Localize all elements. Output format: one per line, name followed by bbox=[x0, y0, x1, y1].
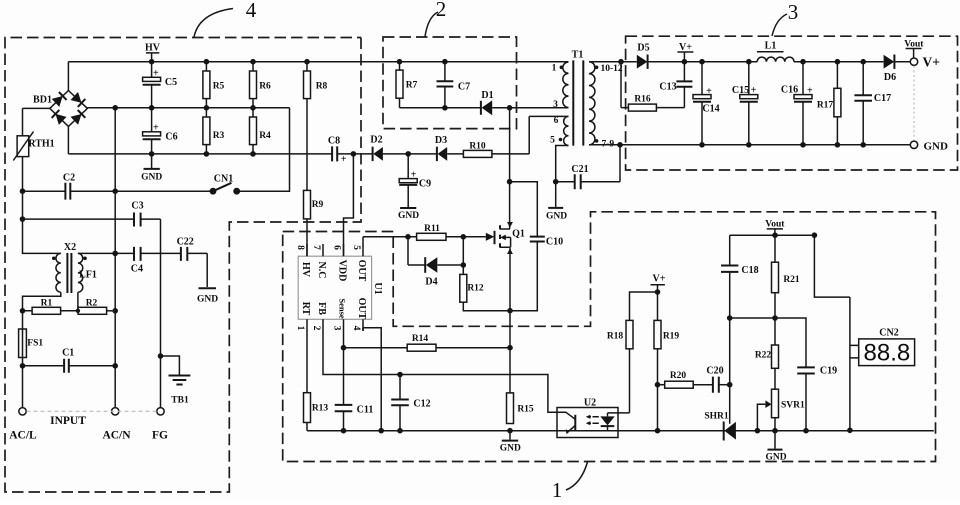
node gnd rail at C6 bbox=[149, 151, 155, 157]
svg-text:GND: GND bbox=[765, 452, 786, 462]
node drain C10 branch bbox=[507, 179, 513, 185]
node rail at C19 bbox=[803, 428, 809, 434]
svg-text:D3: D3 bbox=[435, 135, 447, 146]
svg-text:R11: R11 bbox=[424, 224, 440, 234]
svg-text:HV: HV bbox=[300, 262, 311, 278]
svg-text:R10: R10 bbox=[469, 141, 486, 151]
dotted link V+ to GND terminal bbox=[913, 66, 915, 141]
wire CN1 right to mid-rail drop bbox=[237, 108, 290, 191]
node C20 / SHR1 ref junction bbox=[727, 382, 733, 388]
diode D2 bbox=[370, 134, 408, 161]
wire pin1 RT to R13 bbox=[306, 331, 308, 393]
svg-text:GND: GND bbox=[141, 173, 162, 183]
node HV rail at R8 bbox=[304, 59, 310, 65]
dashed box 2 (clamp/snubber section) bbox=[383, 37, 517, 129]
diode D6 bbox=[884, 55, 911, 84]
label INPUT bbox=[50, 415, 86, 427]
dashed box 3 (output filter section) bbox=[626, 36, 958, 170]
wire drain column bbox=[509, 108, 511, 229]
node pin5 / C21 / gnd junction bbox=[553, 179, 559, 185]
svg-text:R22: R22 bbox=[755, 350, 772, 360]
node C2 left junction bbox=[20, 188, 26, 194]
svg-text:AC/L: AC/L bbox=[9, 430, 37, 442]
node gate line D4 branch bbox=[405, 234, 411, 240]
node output rail at V+ bbox=[682, 59, 688, 65]
svg-text:CN1: CN1 bbox=[214, 174, 233, 185]
node rail at C15 bottom bbox=[746, 142, 752, 148]
svg-text:FG: FG bbox=[152, 430, 168, 442]
label HV flag bbox=[145, 43, 161, 62]
svg-text:+: + bbox=[807, 86, 813, 97]
node gnd rail at R4 bbox=[250, 151, 256, 157]
svg-text:C18: C18 bbox=[741, 265, 758, 276]
wire source column bbox=[509, 247, 511, 393]
svg-text:R15: R15 bbox=[517, 405, 534, 415]
label Vout flag feedback bbox=[765, 220, 785, 236]
ground under C22 bbox=[197, 288, 218, 304]
svg-text:+: + bbox=[341, 154, 347, 165]
svg-text:10-12: 10-12 bbox=[601, 64, 623, 74]
resistor R11 bbox=[417, 224, 486, 241]
svg-text:+: + bbox=[751, 85, 757, 96]
svg-text:+: + bbox=[706, 86, 712, 97]
wire bridge bottom to primary gnd rail bbox=[67, 126, 69, 153]
svg-text:SHR1: SHR1 bbox=[704, 411, 729, 421]
node divider mid junction bbox=[772, 315, 778, 321]
resistor R14 bbox=[344, 334, 511, 351]
svg-text:VDD: VDD bbox=[336, 260, 347, 282]
node source R14 junction bbox=[507, 345, 513, 351]
diode D4 bbox=[408, 237, 463, 288]
op-amp U1 (controller IC) bbox=[295, 244, 383, 331]
capacitor C20 bbox=[706, 366, 729, 393]
svg-text:R9: R9 bbox=[312, 200, 324, 210]
svg-text:C1: C1 bbox=[62, 348, 74, 359]
svg-text:V+: V+ bbox=[923, 55, 940, 70]
svg-text:3: 3 bbox=[788, 0, 799, 24]
svg-text:4: 4 bbox=[246, 0, 257, 22]
node C1 left junction bbox=[20, 363, 26, 369]
switch CN1 bbox=[210, 174, 241, 195]
svg-text:R12: R12 bbox=[467, 284, 484, 294]
dashed box 1 (feedback/control section) bbox=[283, 212, 936, 462]
svg-text:R4: R4 bbox=[259, 131, 271, 141]
svg-text:GND: GND bbox=[398, 211, 419, 221]
capacitor C18 bbox=[721, 235, 759, 318]
svg-text:GND: GND bbox=[500, 444, 521, 454]
terminal V+ output bbox=[910, 55, 940, 70]
node C8/VDD junction bbox=[351, 151, 357, 157]
svg-text:C3: C3 bbox=[131, 201, 143, 212]
svg-text:C11: C11 bbox=[357, 405, 374, 416]
resistor R6 bbox=[250, 62, 272, 108]
svg-text:Vout: Vout bbox=[765, 220, 785, 230]
svg-text:U1: U1 bbox=[372, 282, 383, 294]
capacitor C21 bbox=[556, 145, 620, 189]
wire primary gnd rail bbox=[68, 153, 372, 155]
svg-text:C9: C9 bbox=[419, 179, 431, 190]
diode D3 bbox=[408, 135, 463, 161]
node Vout tick bbox=[772, 232, 778, 238]
ground under SVR1 bbox=[765, 431, 786, 463]
node HV rail at C7 bbox=[442, 59, 448, 65]
svg-text:2: 2 bbox=[436, 0, 447, 21]
capacitor C19 bbox=[797, 366, 837, 431]
capacitor C10 bbox=[510, 182, 564, 311]
svg-text:C17: C17 bbox=[874, 93, 891, 104]
node gnd rail at R19 bbox=[655, 428, 661, 434]
capacitor C22 bbox=[177, 237, 194, 261]
node D4 right junction bbox=[461, 262, 467, 268]
node R19/R20 junction bbox=[655, 382, 661, 388]
wire AC/N column (bridge right down to terminal) bbox=[114, 108, 116, 408]
svg-text:C20: C20 bbox=[706, 366, 723, 377]
svg-text:1: 1 bbox=[295, 326, 305, 331]
node mid rail at C5/C6 bbox=[149, 105, 155, 111]
dashed box 4 (input/rectifier section) bbox=[5, 38, 361, 493]
label V+ flag box3 bbox=[677, 42, 693, 62]
svg-text:T1: T1 bbox=[572, 50, 584, 61]
node clamp rail at C7 bbox=[442, 105, 448, 111]
node gnd rail at R3 bbox=[204, 151, 210, 157]
capacitor C9 (electrolytic) bbox=[399, 154, 431, 207]
wire bridge top to HV rail bbox=[67, 62, 69, 91]
diode D1 bbox=[481, 90, 494, 115]
node rail corner junction bbox=[812, 232, 818, 238]
ground under T1 pin5 bbox=[546, 182, 567, 222]
svg-text:AC/N: AC/N bbox=[102, 430, 131, 442]
svg-text:D1: D1 bbox=[481, 90, 493, 101]
resistor R12 bbox=[460, 237, 510, 311]
capacitor C14 (electrolytic) bbox=[693, 62, 720, 145]
capacitor C6 (electrolytic) bbox=[143, 108, 178, 154]
svg-text:C19: C19 bbox=[820, 366, 837, 377]
wire output top rail bbox=[648, 61, 884, 63]
svg-text:R1: R1 bbox=[41, 299, 53, 309]
svg-text:SVR1: SVR1 bbox=[781, 400, 805, 410]
svg-text:C21: C21 bbox=[571, 164, 588, 175]
node HV rail at R5 bbox=[204, 59, 210, 65]
resistor R20 bbox=[658, 371, 713, 388]
svg-text:R8: R8 bbox=[316, 81, 328, 91]
svg-text:R19: R19 bbox=[663, 332, 680, 342]
diode D5 bbox=[637, 43, 685, 69]
svg-text:R2: R2 bbox=[86, 299, 98, 309]
svg-text:5: 5 bbox=[550, 135, 555, 145]
node HV rail at R6 bbox=[250, 59, 256, 65]
svg-text:D6: D6 bbox=[884, 72, 896, 83]
section label 4 bbox=[194, 0, 257, 37]
wire R18 to opto LED anode bbox=[608, 412, 630, 414]
svg-text:U2: U2 bbox=[584, 397, 596, 408]
node mid rail at R6/R4 bbox=[250, 105, 256, 111]
section label 1 bbox=[552, 462, 588, 502]
svg-text:C22: C22 bbox=[177, 237, 194, 248]
svg-text:R18: R18 bbox=[607, 332, 624, 342]
svg-text:D5: D5 bbox=[637, 43, 649, 54]
node R2 right junction bbox=[112, 308, 118, 314]
earth TB1 bbox=[161, 356, 191, 406]
node HV rail at R7 bbox=[397, 59, 403, 65]
capacitor C2 bbox=[23, 172, 214, 199]
wire LF1 right top / C4 rail bbox=[78, 252, 207, 254]
wire T1 pin3 lead bbox=[510, 107, 569, 109]
capacitor C16 (electrolytic) bbox=[781, 62, 813, 145]
svg-text:R13: R13 bbox=[312, 404, 329, 414]
svg-text:V+: V+ bbox=[653, 274, 666, 285]
node R1 left junction bbox=[20, 308, 26, 314]
wire Vout top rail feedback bbox=[730, 235, 850, 297]
node R2 mid junction bbox=[76, 309, 80, 313]
wire divider mid rail bbox=[730, 318, 806, 367]
shunt regulator SHR1 bbox=[704, 411, 736, 440]
resistor R7 bbox=[396, 62, 418, 108]
ground under C9 bbox=[398, 208, 419, 221]
node V+ junction bbox=[655, 289, 661, 295]
svg-text:R17: R17 bbox=[817, 100, 834, 110]
svg-text:C16: C16 bbox=[781, 84, 798, 95]
svg-text:N.C: N.C bbox=[316, 262, 327, 279]
node rail at C17 top bbox=[860, 59, 866, 65]
section label 2 bbox=[425, 0, 446, 37]
resistor R18 bbox=[607, 320, 633, 413]
thermistor RTH1 bbox=[13, 108, 54, 191]
svg-text:LF1: LF1 bbox=[79, 270, 97, 281]
svg-text:+: + bbox=[153, 123, 159, 134]
resistor R1 bbox=[23, 299, 79, 315]
node rail at SVR1 bottom bbox=[772, 428, 778, 434]
svg-text:OUT: OUT bbox=[356, 260, 367, 282]
common-mode choke X2 / LF1 bbox=[52, 242, 97, 293]
node Sense/R14 tap bbox=[341, 345, 347, 351]
svg-text:C10: C10 bbox=[546, 237, 563, 248]
svg-text:RT: RT bbox=[300, 302, 311, 316]
potentiometer SVR1 bbox=[757, 389, 805, 431]
wire pin4 OUT to gnd rail bbox=[363, 328, 381, 431]
svg-text:R21: R21 bbox=[783, 275, 800, 285]
wire T1 secondary bottom lead / output gnd rail bbox=[589, 144, 910, 146]
node rail at C16 bottom bbox=[800, 142, 806, 148]
section label 3 bbox=[772, 0, 798, 36]
svg-text:+: + bbox=[153, 68, 159, 79]
resistor R19 bbox=[654, 292, 679, 431]
capacitor C12 bbox=[391, 375, 430, 431]
node C12 top on FB line bbox=[397, 372, 403, 378]
svg-text:R6: R6 bbox=[259, 81, 271, 91]
capacitor C11 bbox=[335, 405, 374, 416]
node rail at C14 bottom bbox=[699, 142, 705, 148]
resistor R13 bbox=[304, 393, 329, 431]
resistor R4 bbox=[250, 108, 272, 154]
svg-text:C12: C12 bbox=[413, 399, 430, 410]
capacitor C4 bbox=[131, 247, 143, 275]
transistor Q1 (MOSFET) bbox=[486, 222, 525, 254]
resistor R17 bbox=[817, 62, 841, 145]
svg-text:C8: C8 bbox=[328, 135, 340, 146]
svg-text:FB: FB bbox=[316, 302, 327, 315]
label Vout flag box3 bbox=[904, 39, 924, 58]
node gnd rail at CN2 bbox=[847, 428, 853, 434]
svg-text:+: + bbox=[411, 170, 417, 181]
resistor R9 bbox=[304, 190, 324, 256]
wire V+ to R18 bbox=[630, 292, 658, 320]
node C1 right junction bbox=[112, 363, 118, 369]
node secondary bottom bbox=[617, 142, 623, 148]
terminal AC/N bbox=[102, 408, 131, 442]
svg-text:GND: GND bbox=[197, 295, 218, 305]
wire SHR1 reference column bbox=[729, 318, 731, 424]
svg-text:88.8: 88.8 bbox=[864, 340, 911, 367]
node C3 left junction bbox=[20, 216, 26, 222]
svg-text:C7: C7 bbox=[458, 82, 470, 93]
wire control gnd rail bbox=[307, 430, 934, 432]
node HV rail at C5 bbox=[149, 59, 155, 65]
inductor L1 bbox=[757, 41, 794, 62]
svg-text:1: 1 bbox=[552, 63, 557, 73]
capacitor C1 bbox=[23, 348, 116, 373]
node rail at C17 bottom bbox=[860, 142, 866, 148]
node mid rail at R5/R3 bbox=[204, 105, 210, 111]
svg-text:R16: R16 bbox=[634, 94, 651, 104]
resistor R10 bbox=[463, 116, 568, 157]
transformer T1 bbox=[550, 50, 623, 150]
svg-text:OUT: OUT bbox=[356, 298, 367, 320]
bridge rectifier BD1 bbox=[33, 91, 87, 127]
svg-text:GND: GND bbox=[546, 212, 567, 222]
resistor R22 bbox=[755, 345, 779, 389]
wire C22 to ground drop bbox=[206, 253, 208, 287]
node gnd rail at pin4 drop bbox=[378, 428, 384, 434]
wire bridge left to RTH1 column bbox=[23, 107, 50, 109]
wire pin5 OUT gate line bbox=[363, 237, 417, 244]
node rail at R17 bottom bbox=[835, 142, 841, 148]
svg-text:1: 1 bbox=[552, 478, 563, 500]
svg-text:7: 7 bbox=[311, 245, 321, 250]
node TB1 tap bbox=[158, 353, 164, 359]
resistor R21 bbox=[772, 235, 800, 345]
ground under C6 bbox=[141, 154, 162, 183]
node R11/R12 column top bbox=[461, 234, 467, 240]
capacitor C17 bbox=[854, 62, 891, 145]
optocoupler U2 bbox=[557, 397, 618, 437]
node D2/D3/C9 junction bbox=[405, 151, 411, 157]
wire HV main rail bbox=[68, 61, 568, 63]
svg-text:4: 4 bbox=[351, 326, 361, 331]
wire clamp bottom rail bbox=[400, 107, 510, 109]
node D1 / T1 pin3 / drain junction bbox=[507, 105, 513, 111]
wire LF1 left bottom jog to AC/L column bbox=[23, 292, 61, 329]
svg-text:D2: D2 bbox=[370, 134, 382, 145]
node gnd rail at R15 bbox=[507, 428, 513, 434]
fuse FS1 bbox=[19, 329, 44, 408]
svg-text:8: 8 bbox=[295, 245, 305, 250]
svg-text:5: 5 bbox=[351, 245, 361, 250]
wire FG column bbox=[160, 219, 162, 408]
wire LF1 right bottom to R1R2 mid bbox=[77, 292, 79, 311]
svg-text:C13: C13 bbox=[659, 82, 676, 93]
resistor R5 bbox=[203, 62, 225, 108]
input terminal dashed link bbox=[27, 410, 157, 412]
svg-text:INPUT: INPUT bbox=[50, 415, 86, 427]
svg-text:CN2: CN2 bbox=[879, 327, 898, 338]
svg-text:BD1: BD1 bbox=[33, 95, 52, 106]
svg-text:TB1: TB1 bbox=[171, 396, 189, 406]
svg-text:R14: R14 bbox=[412, 334, 429, 344]
wire T1 secondary top lead bbox=[589, 61, 637, 63]
svg-text:X2: X2 bbox=[64, 242, 76, 253]
svg-text:Q1: Q1 bbox=[512, 229, 525, 240]
wire pin3 Sense down bbox=[343, 331, 345, 431]
node rail at C15 top bbox=[746, 59, 752, 65]
node rail at C14 top bbox=[699, 59, 705, 65]
node rail at C16 top bbox=[800, 59, 806, 65]
terminal AC/L bbox=[9, 408, 37, 442]
svg-text:R3: R3 bbox=[213, 131, 225, 141]
svg-text:R5: R5 bbox=[213, 81, 225, 91]
svg-text:D4: D4 bbox=[425, 277, 437, 288]
wire VDD feed jog to U1 pin6 bbox=[344, 154, 354, 256]
ground under R15 bbox=[500, 431, 521, 454]
svg-text:6: 6 bbox=[331, 245, 341, 250]
svg-text:R7: R7 bbox=[406, 81, 418, 91]
svg-text:L1: L1 bbox=[765, 41, 777, 52]
svg-text:GND: GND bbox=[924, 140, 949, 152]
svg-text:C14: C14 bbox=[702, 104, 719, 115]
capacitor C13 bbox=[659, 62, 692, 93]
svg-text:3: 3 bbox=[331, 326, 341, 331]
wire pin2 FB to optocoupler bbox=[323, 331, 557, 412]
node secondary top at D5 anode bbox=[618, 59, 624, 65]
svg-text:RTH1: RTH1 bbox=[28, 139, 54, 150]
capacitor C15 (electrolytic) bbox=[732, 62, 758, 145]
capacitor C8 bbox=[328, 135, 347, 165]
node C18 bottom / divider wire bbox=[727, 315, 733, 321]
svg-text:FS1: FS1 bbox=[27, 338, 43, 348]
capacitor C3 bbox=[23, 201, 161, 227]
svg-text:2: 2 bbox=[311, 326, 321, 331]
svg-text:C2: C2 bbox=[63, 172, 75, 183]
terminal GND output bbox=[910, 140, 948, 152]
node LF1 right top junction bbox=[112, 251, 118, 257]
node C2 right junction (AC/N column) bbox=[112, 188, 118, 194]
svg-text:HV: HV bbox=[145, 43, 161, 54]
node gnd rail at C12 bbox=[397, 428, 403, 434]
capacitor C7 bbox=[437, 62, 471, 108]
terminal FG bbox=[152, 408, 168, 442]
wire bridge right to mid rail bbox=[87, 107, 115, 109]
node source R12/C10 junction bbox=[507, 308, 513, 314]
svg-text:C4: C4 bbox=[131, 264, 143, 275]
capacitor C5 (electrolytic) bbox=[143, 62, 178, 108]
wire AC/L column upper segment bbox=[23, 191, 61, 253]
node gnd rail at C11 bbox=[341, 428, 347, 434]
svg-text:C6: C6 bbox=[165, 132, 177, 143]
svg-text:R20: R20 bbox=[670, 371, 687, 381]
resistor R16 bbox=[621, 62, 684, 111]
node rail at R17 top bbox=[835, 59, 841, 65]
wire T1 pin5 lead bbox=[556, 146, 569, 182]
svg-text:Sense: Sense bbox=[338, 298, 348, 319]
node rail at SVR1 wiper bbox=[755, 428, 761, 434]
svg-text:6: 6 bbox=[554, 116, 559, 126]
resistor R15 bbox=[507, 393, 534, 424]
svg-text:C5: C5 bbox=[165, 77, 177, 88]
wire mid rail bbox=[87, 107, 289, 109]
label V+ flag feedback bbox=[651, 274, 666, 292]
resistor R8 bbox=[304, 62, 328, 191]
display connector CN2 bbox=[850, 297, 915, 430]
node mid rail at AC/N column bbox=[112, 105, 118, 111]
